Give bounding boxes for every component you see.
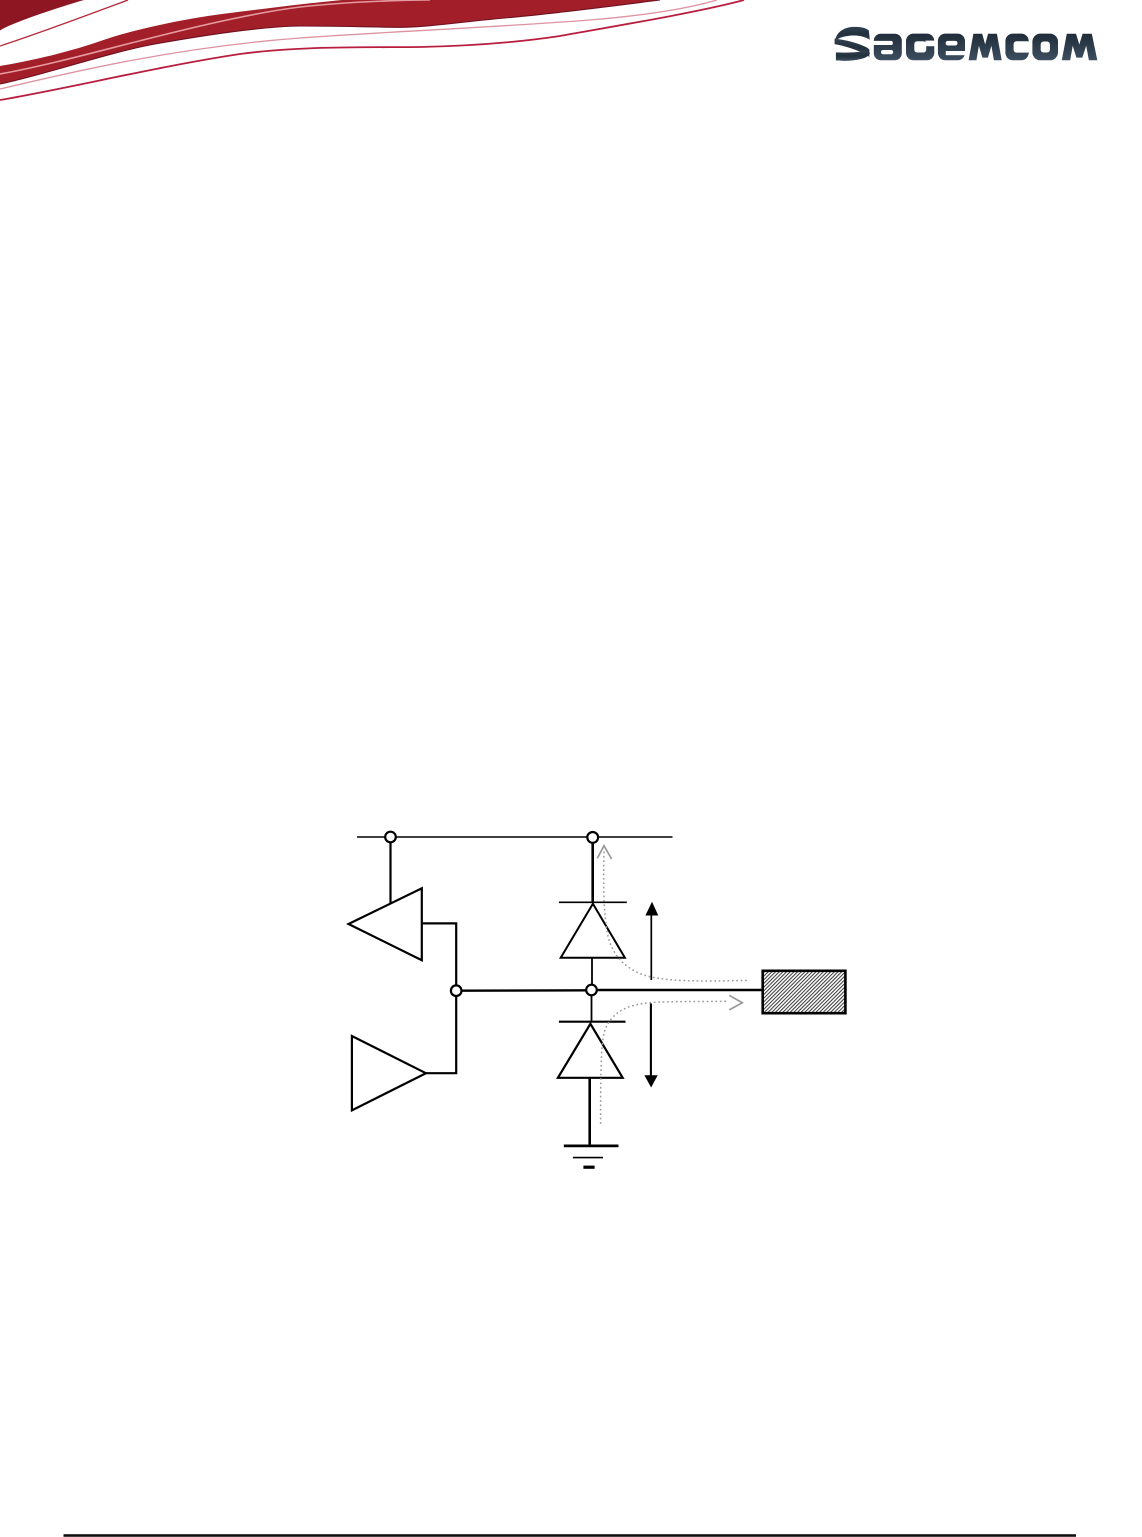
wire VDD to diode D1 <box>591 842 594 902</box>
arrow down (negative transient) <box>644 1004 657 1088</box>
power rail VDD <box>357 836 673 838</box>
Sagemcom logo <box>835 27 1098 61</box>
node N3 <box>451 985 462 996</box>
wire node N4 to diode D2 <box>591 996 593 1022</box>
op-amp U2 (input buffer, pointing right) <box>352 1036 426 1110</box>
wire node N1 to op-amp U1 <box>389 842 391 904</box>
wire node N4 to pad <box>592 989 763 992</box>
diode D2 <box>558 1024 623 1078</box>
header ribbon graphic <box>0 0 744 100</box>
dotted ESD path through D1 to VDD <box>597 846 749 981</box>
node N1 <box>385 832 396 843</box>
diode D1 <box>561 904 625 958</box>
dotted ESD path from pad through D2 <box>601 995 743 1124</box>
footer rule <box>64 1534 1077 1537</box>
wire U2 input to node N3 <box>426 991 456 1073</box>
wire node N3 to node N4 <box>456 989 591 992</box>
arrow up (positive transient) <box>645 902 658 980</box>
ground <box>564 1146 619 1167</box>
wire D1 anode to node N4 <box>591 958 593 985</box>
diode D2 cathode bar <box>559 1021 626 1023</box>
diode D1 cathode bar <box>559 901 627 903</box>
node N4 <box>586 985 597 996</box>
wire U1 output to node N3 <box>422 923 456 990</box>
op-amp U1 (output driver, pointing left) <box>349 888 422 960</box>
node N2 <box>587 832 598 843</box>
wire D2 anode to ground <box>588 1078 591 1146</box>
I/O pad (hatched box) <box>763 971 846 1013</box>
